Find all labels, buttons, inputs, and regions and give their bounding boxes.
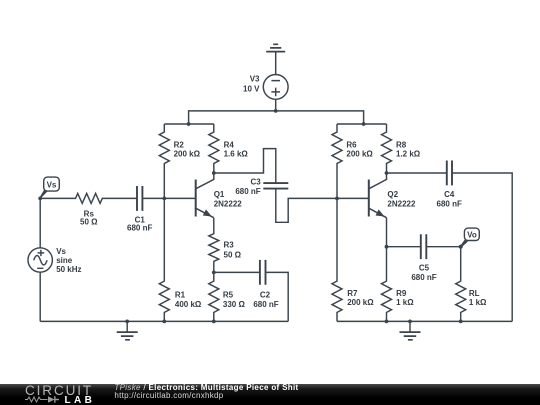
wire Rs to C1 [103,197,138,199]
wire Q2 collector to C4 [387,172,447,174]
svg-text:1.6 kΩ: 1.6 kΩ [224,150,249,159]
node flag Vs [38,177,59,200]
wire C3 bottom to Q2 base (jog) [276,189,369,223]
resistor R3 [209,218,242,273]
svg-text:1 kΩ: 1 kΩ [469,298,487,307]
junction C3 / R6 / R7 / Q2 base [335,197,339,201]
wire C1 to Q1 base [142,197,195,199]
svg-text:1.2 kΩ: 1.2 kΩ [396,150,421,159]
resistor R6 [332,124,373,198]
wire R3 junction to C2 [214,271,260,273]
svg-text:R1: R1 [175,291,186,300]
junction Q2 emitter / C5 / R9 [385,245,389,249]
svg-text:Q2: Q2 [387,190,398,199]
junction Q2 collector / R8 / C4 [385,171,389,175]
resistor R4 [209,124,249,173]
svg-text:C3: C3 [250,178,261,187]
svg-text:2N2222: 2N2222 [214,199,243,208]
svg-text:sine: sine [56,256,73,265]
wire C2 right down to rail [266,272,289,321]
CircuitLab logo doodle (resistor + diode) [25,395,65,404]
junction bias wire left [187,122,191,126]
resistor R5 [209,272,246,321]
resistor R8 [382,124,421,173]
junction left rail / ground [125,320,129,324]
svg-text:2N2222: 2N2222 [387,199,416,208]
wire Q2 emitter down [386,218,388,247]
wire R6-R8 bias top [337,123,387,125]
resistor Rs [73,193,103,226]
wire left ground rail [40,320,288,322]
junction C1 / R2 / R1 / Q1 base [162,197,166,201]
svg-text:R7: R7 [347,289,358,298]
wire top rail right segment [276,111,364,124]
capacitor C4 [437,161,462,209]
svg-text:400 kΩ: 400 kΩ [175,300,202,309]
svg-text:R5: R5 [223,291,234,300]
svg-text:50 Ω: 50 Ω [80,218,98,227]
wire right ground rail [337,320,512,322]
junction R9 / rail [385,320,389,324]
resistor R2 [159,124,200,198]
wire C5 to node Vo [426,246,460,248]
wire Vs to Rs [40,197,73,199]
wire Vs top lead [39,198,41,247]
ground (bottom left) [117,321,138,339]
node flag Vo [459,228,480,249]
svg-text:200 kΩ: 200 kΩ [347,298,374,307]
voltage source Vs (sine) [28,247,82,274]
svg-text:10 V: 10 V [243,85,260,94]
svg-text:680 nF: 680 nF [127,224,152,233]
svg-text:R6: R6 [346,140,357,149]
svg-text:50 Ω: 50 Ω [224,251,242,260]
voltage source V3 [243,52,288,111]
wire Vs bottom lead [39,272,41,321]
wire emitter junction to C5 [387,246,421,248]
wire top rail left segment [189,111,276,124]
svg-text:200 kΩ: 200 kΩ [174,150,201,159]
resistor R7 [332,198,374,321]
svg-text:C4: C4 [444,190,455,199]
junction V3 / top rail [274,109,278,113]
svg-text:C5: C5 [419,263,430,272]
capacitor C5 [411,234,436,282]
svg-text:V3: V3 [250,75,260,84]
svg-text:R9: R9 [396,289,407,298]
ground (bottom right) [400,321,421,339]
svg-text:R8: R8 [396,140,407,149]
junction RL / rail [459,320,463,324]
svg-text:R4: R4 [224,140,235,149]
wire R2-R4 bias top [164,123,214,125]
svg-text:200 kΩ: 200 kΩ [346,150,373,159]
svg-text:Q1: Q1 [214,190,225,199]
footer title line [114,383,298,392]
junction Q1 collector / R4 / C3 [212,171,216,175]
wire Q1 collector to C3 top (jog) [214,149,276,184]
capacitor C3 [235,178,288,196]
svg-text:C2: C2 [260,291,271,300]
svg-text:680 nF: 680 nF [253,300,278,309]
capacitor C2 [253,260,278,309]
svg-text:R2: R2 [174,140,185,149]
resistor RL [456,247,487,322]
svg-text:330 Ω: 330 Ω [223,300,246,309]
svg-text:1 kΩ: 1 kΩ [396,298,414,307]
junction bias wire right [362,122,366,126]
svg-text:R3: R3 [224,240,235,249]
capacitor C1 [127,186,152,233]
junction R3 / C2 / R5 [212,271,216,275]
wire C4 to right edge down [452,173,512,321]
resistor R9 [382,247,415,322]
footer url line [114,391,223,400]
CircuitLab logo text LAB [65,395,96,405]
svg-text:Vo: Vo [467,231,477,240]
transistor Q2 (2N2222 npn) [369,173,416,218]
CircuitLab logo text CIRCUIT [25,383,93,398]
junction right rail / ground [408,320,412,324]
svg-text:680 nF: 680 nF [411,273,436,282]
svg-text:Vs: Vs [47,180,57,189]
svg-text:680 nF: 680 nF [437,199,462,208]
junction R1 / rail [162,320,166,324]
svg-text:Vs: Vs [56,247,66,256]
svg-text:50 kHz: 50 kHz [56,265,81,274]
svg-text:RL: RL [469,289,480,298]
ground (top, V3) [266,44,285,51]
transistor Q1 (2N2222 npn) [196,173,243,218]
svg-text:680 nF: 680 nF [235,187,260,196]
junction R5 / rail [212,320,216,324]
resistor R1 [159,198,202,321]
